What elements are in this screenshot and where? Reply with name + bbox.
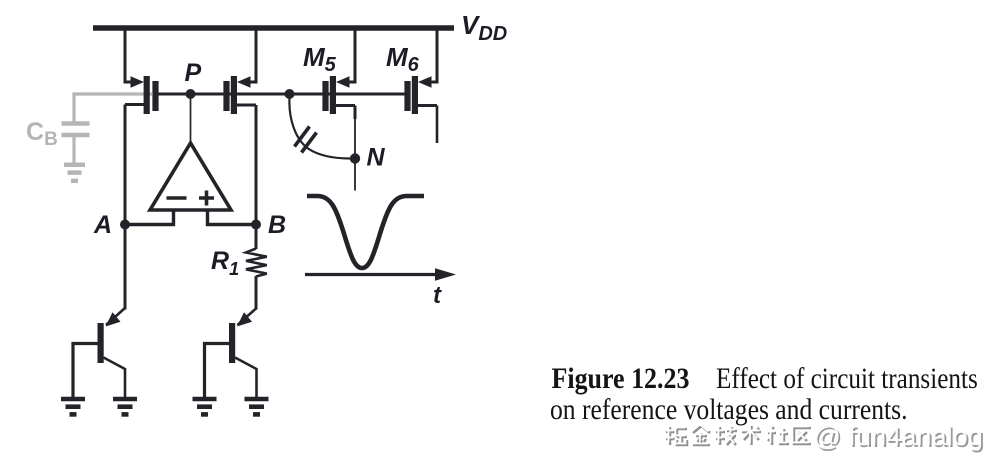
svg-text:t: t xyxy=(433,282,442,309)
wire op-amp output to P xyxy=(190,96,192,144)
svg-text:Figure 12.23: Figure 12.23 xyxy=(552,362,690,395)
svg-text:A: A xyxy=(93,211,112,239)
wire op-amp plus input to node B xyxy=(208,210,257,225)
wire node B column xyxy=(255,105,258,249)
wire CB gate lead (grey) xyxy=(74,94,152,122)
node B xyxy=(251,220,261,230)
axis t xyxy=(305,273,437,276)
svg-text:@ fun4analog: @ fun4analog xyxy=(813,420,983,451)
transistor Q1 xyxy=(73,308,125,397)
wire gate bus P xyxy=(155,93,406,96)
ground (Q1 base) xyxy=(61,399,85,414)
ground (below CB, grey) xyxy=(64,165,85,181)
ground (Q2 base) xyxy=(193,399,217,414)
resistor R1 xyxy=(246,249,267,277)
svg-text:B: B xyxy=(268,211,286,239)
svg-text:N: N xyxy=(367,144,386,172)
wire R1 to Q2 xyxy=(255,276,258,310)
node P xyxy=(186,89,196,99)
capacitor C_B (grey) xyxy=(62,124,90,164)
ground (Q2 collector) xyxy=(245,399,269,414)
pmos M1 xyxy=(125,76,159,114)
capacitor parasitic coupling (slashes) xyxy=(295,127,317,153)
ground (Q1 collector) xyxy=(113,399,137,414)
wire M5 drain to N line xyxy=(354,106,357,120)
caption figure 12.23 xyxy=(550,361,978,427)
wire op-amp minus input to node A xyxy=(125,210,174,225)
wire M2 source from VDD xyxy=(249,28,256,82)
svg-text:P: P xyxy=(185,59,202,87)
wire M1 source from VDD xyxy=(125,28,132,82)
svg-text:Effect of circuit transients: Effect of circuit transients xyxy=(716,361,978,395)
wire M6 source from VDD xyxy=(430,28,437,82)
svg-text:CB: CB xyxy=(26,118,58,150)
waveform dip xyxy=(307,196,424,268)
VDD rail xyxy=(93,25,454,31)
wire coupling curve P-bus to N xyxy=(289,98,350,159)
node A xyxy=(120,220,130,230)
svg-text:M5: M5 xyxy=(303,42,337,76)
svg-text:R1: R1 xyxy=(211,247,239,279)
wire node A column xyxy=(124,105,127,310)
node N xyxy=(350,153,360,163)
wire M6 drain stub xyxy=(436,106,439,144)
pmos M6 xyxy=(404,76,437,114)
node coupling tap xyxy=(285,89,295,99)
op-amp U1 xyxy=(150,143,231,210)
pmos M5 xyxy=(322,76,355,114)
watermark 掘金技术社区 @ fun4analog xyxy=(664,420,984,453)
svg-text:M6: M6 xyxy=(386,42,420,76)
transistor Q2 xyxy=(205,308,257,397)
svg-text:VDD: VDD xyxy=(461,10,507,45)
pmos M2 xyxy=(223,76,256,114)
wire M5 source from VDD xyxy=(348,28,355,82)
